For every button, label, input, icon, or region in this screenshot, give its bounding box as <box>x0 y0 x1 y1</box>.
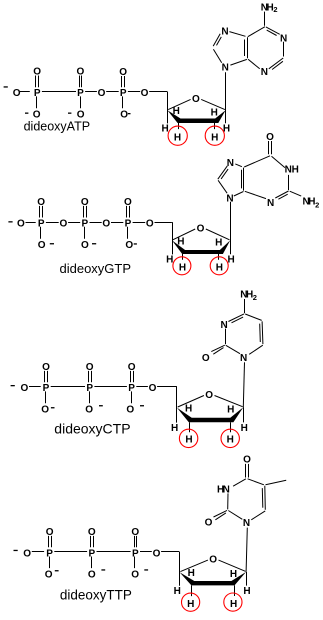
svg-text:H: H <box>230 599 237 610</box>
svg-text:P: P <box>132 548 139 559</box>
svg-text:H: H <box>216 262 223 273</box>
svg-text:O: O <box>141 88 149 99</box>
svg-text:O: O <box>205 517 213 528</box>
svg-text:N: N <box>267 198 274 209</box>
svg-text:O: O <box>149 383 157 394</box>
svg-text:O: O <box>205 390 213 401</box>
svg-text:H: H <box>171 423 178 434</box>
svg-text:H: H <box>179 262 186 273</box>
svg-text:H: H <box>211 133 218 144</box>
svg-text:O: O <box>243 455 251 466</box>
svg-text:2: 2 <box>253 293 257 302</box>
svg-text:O: O <box>46 527 54 538</box>
svg-text:H: H <box>292 165 299 176</box>
svg-text:O: O <box>124 197 132 208</box>
svg-text:O: O <box>202 353 210 364</box>
svg-text:O: O <box>88 527 96 538</box>
svg-text:N: N <box>226 193 233 204</box>
svg-text:N: N <box>227 158 234 169</box>
svg-text:H: H <box>227 405 234 416</box>
svg-text:O: O <box>98 88 106 99</box>
svg-text:dideoxyTTP: dideoxyTTP <box>60 588 132 603</box>
svg-text:dideoxyGTP: dideoxyGTP <box>60 261 132 276</box>
svg-text:H: H <box>243 586 250 597</box>
svg-text:O: O <box>131 527 139 538</box>
svg-text:H: H <box>174 133 181 144</box>
svg-text:2: 2 <box>273 5 277 14</box>
svg-text:dideoxyATP: dideoxyATP <box>24 120 90 134</box>
svg-text:O: O <box>60 219 68 230</box>
svg-text:N: N <box>222 63 229 74</box>
svg-text:H: H <box>161 124 168 135</box>
svg-text:H: H <box>174 586 181 597</box>
svg-text:H: H <box>187 599 194 610</box>
svg-text:O: O <box>41 405 49 416</box>
svg-text:N: N <box>240 353 247 364</box>
svg-text:2: 2 <box>315 201 319 210</box>
svg-text:O: O <box>23 548 31 559</box>
svg-text:P: P <box>43 383 50 394</box>
svg-text:O: O <box>85 405 93 416</box>
svg-text:H: H <box>230 569 237 580</box>
svg-text:O: O <box>81 197 89 208</box>
svg-text:O: O <box>33 67 41 78</box>
svg-text:H: H <box>185 435 192 446</box>
svg-text:H: H <box>211 107 218 118</box>
svg-text:O: O <box>17 219 25 230</box>
svg-text:O: O <box>131 570 139 581</box>
svg-text:H: H <box>166 255 173 266</box>
svg-text:O: O <box>209 555 217 566</box>
svg-text:O: O <box>126 405 134 416</box>
svg-text:H: H <box>188 568 195 579</box>
svg-text:O: O <box>102 219 110 230</box>
svg-text:O: O <box>119 67 127 78</box>
svg-text:O: O <box>125 240 133 251</box>
svg-text:O: O <box>146 219 154 230</box>
svg-text:O: O <box>81 240 89 251</box>
svg-text:O: O <box>192 94 200 105</box>
svg-text:P: P <box>125 219 132 230</box>
svg-text:H: H <box>241 423 248 434</box>
svg-text:O: O <box>197 224 205 235</box>
svg-text:O: O <box>21 383 29 394</box>
svg-text:O: O <box>86 362 94 373</box>
svg-text:P: P <box>38 219 45 230</box>
svg-text:N: N <box>220 320 227 331</box>
svg-text:H: H <box>185 404 192 415</box>
svg-text:H: H <box>173 106 180 117</box>
svg-text:dideoxyCTP: dideoxyCTP <box>54 421 130 437</box>
svg-text:N: N <box>223 485 230 496</box>
svg-text:N: N <box>221 26 228 37</box>
svg-text:P: P <box>34 88 41 99</box>
svg-text:O: O <box>13 88 21 99</box>
svg-text:O: O <box>153 548 161 559</box>
svg-text:N: N <box>280 33 287 44</box>
svg-text:P: P <box>120 88 127 99</box>
svg-text:O: O <box>88 570 96 581</box>
svg-text:H: H <box>227 435 234 446</box>
svg-text:N: N <box>261 67 268 78</box>
svg-text:O: O <box>37 197 45 208</box>
svg-text:O: O <box>120 110 128 121</box>
svg-text:H: H <box>215 238 222 249</box>
svg-text:O: O <box>128 362 136 373</box>
svg-text:O: O <box>77 67 85 78</box>
svg-text:N: N <box>243 518 250 529</box>
svg-text:O: O <box>45 570 53 581</box>
svg-text:O: O <box>38 240 46 251</box>
svg-text:O: O <box>266 132 274 143</box>
svg-text:O: O <box>42 362 50 373</box>
svg-text:H: H <box>177 236 184 247</box>
